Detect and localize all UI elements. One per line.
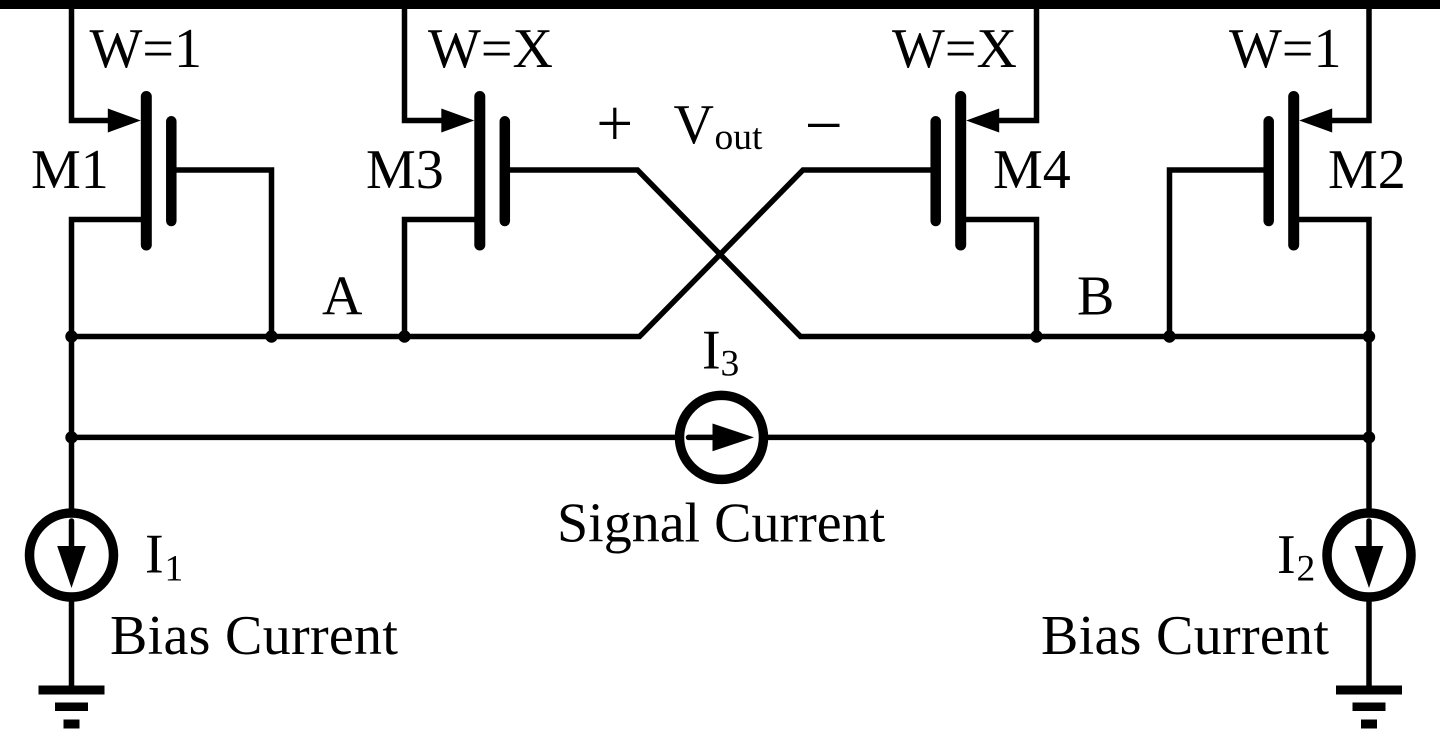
transistor M2 channel bar [1288, 97, 1299, 246]
transistor M3 source arrow [441, 109, 474, 133]
transistor M1 channel bar [141, 97, 152, 246]
junction node A dot 1 [65, 330, 77, 342]
junction node B dot 2 [1163, 330, 1175, 342]
svg-text:out: out [715, 117, 764, 158]
current source I3 arrow [689, 435, 715, 441]
wire M1 source from rail [72, 9, 113, 121]
junction node B dot 1 [1030, 330, 1042, 342]
svg-text:2: 2 [1297, 549, 1316, 590]
transistor M4 channel bar [955, 97, 966, 246]
svg-text:A: A [322, 266, 363, 328]
transistor M4 source arrow [966, 109, 999, 133]
svg-text:W=1: W=1 [1229, 18, 1341, 80]
current source I1 circle [30, 513, 114, 597]
transistor M1 source arrow [108, 109, 141, 133]
junction middle-left dot [65, 431, 77, 443]
svg-text:W=1: W=1 [90, 18, 202, 80]
svg-text:I: I [1277, 524, 1296, 586]
svg-text:1: 1 [165, 548, 184, 589]
wire M4 source from rail [996, 9, 1037, 121]
junction node A dot 3 [398, 330, 410, 342]
transistor M3 channel bar [474, 97, 485, 246]
ground right [1336, 686, 1402, 729]
svg-text:M2: M2 [1328, 139, 1406, 201]
svg-text:I: I [145, 524, 164, 586]
current source I1 arrow [69, 521, 75, 547]
svg-text:B: B [1077, 266, 1114, 328]
wire M1 drain to node A [72, 220, 142, 337]
transistor M3 gate bar [500, 121, 511, 221]
wire left bus node A down to I1 [69, 337, 75, 510]
svg-text:Bias Current: Bias Current [1041, 605, 1329, 667]
ground left [39, 686, 105, 729]
transistor M4 gate bar [930, 121, 941, 221]
wire M3 source from rail [405, 9, 446, 121]
current source I2 arrow [1366, 521, 1372, 547]
current source I3 circle [680, 395, 764, 479]
transistor M2 gate bar [1263, 121, 1274, 221]
label - (Vout minus) [808, 124, 840, 127]
wire M1 gate to node A [177, 170, 272, 337]
junction middle-right dot [1363, 431, 1375, 443]
svg-text:V: V [674, 94, 714, 156]
wire M4 gate horizontal + cross-couple to node A [72, 170, 931, 337]
transistor M1 gate bar [166, 121, 177, 221]
wire right bus node B down to I2 [1366, 337, 1372, 510]
svg-text:W=X: W=X [892, 18, 1017, 80]
svg-text:Signal Current: Signal Current [557, 493, 886, 555]
wire I1 to ground [69, 601, 75, 687]
svg-text:M3: M3 [366, 139, 444, 201]
wire M2 source from rail [1329, 9, 1370, 121]
svg-text:M4: M4 [993, 139, 1071, 201]
junction node A dot 2 [265, 330, 277, 342]
wire M3 gate horizontal + cross-couple to node B [510, 170, 1369, 337]
current source I2 circle [1327, 513, 1411, 597]
svg-text:W=X: W=X [428, 18, 553, 80]
wire middle horizontal right of I3 [767, 435, 1369, 441]
svg-text:Bias Current: Bias Current [110, 605, 398, 667]
transistor M2 source arrow [1299, 109, 1332, 133]
wire I2 to ground [1366, 601, 1372, 687]
wire middle horizontal left of I3 [72, 435, 677, 441]
svg-text:M1: M1 [31, 139, 109, 201]
wire M4 drain to node B [966, 220, 1037, 337]
power rail VDD (top bus) [0, 0, 1440, 9]
junction node B dot 3 [1363, 330, 1375, 342]
wire M3 drain to node A [405, 220, 475, 337]
svg-text:3: 3 [721, 344, 740, 385]
svg-text:I: I [702, 319, 721, 381]
label + (Vout plus) [600, 108, 631, 139]
wire M2 gate to node B [1170, 170, 1264, 337]
wire M2 drain to node B [1299, 220, 1369, 337]
